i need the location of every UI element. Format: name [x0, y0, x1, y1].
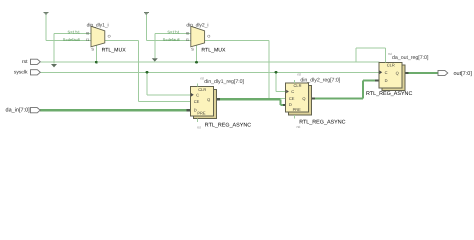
output port out[7:0] [438, 70, 448, 75]
svg-text:RTL_REG_ASYNC: RTL_REG_ASYNC [366, 91, 412, 97]
node T2 constant for din_dly2_i [144, 11, 149, 13]
svg-text:D: D [385, 78, 388, 83]
svg-text:D: D [289, 102, 292, 107]
wire sysclk branch to din_dly1_reg C [146, 72, 148, 95]
wire rst horizontal net [40, 61, 379, 63]
register din_dly2_reg[7:0] [286, 73, 341, 129]
wire T2 to mux2 I1 [145, 15, 147, 41]
wire mux2 I0 net with down arrow [155, 33, 191, 35]
bus din_dly1_reg Q to din_dly2_reg D [216, 98, 281, 100]
mux din_dly2_i [163, 22, 226, 53]
svg-text:Q: Q [207, 97, 210, 102]
svg-text:CLR: CLR [198, 87, 206, 92]
svg-text:rst: rst [388, 52, 392, 56]
svg-text:O: O [108, 34, 111, 38]
input port da_in[7:0] [30, 108, 40, 113]
svg-text:D: D [194, 107, 197, 112]
input port sysclk [31, 70, 41, 75]
wire sysclk branch to din_dly2_reg C [275, 72, 277, 91]
svg-text:din_dly1_i: din_dly1_i [87, 22, 109, 28]
svg-text:I0: I0 [86, 31, 89, 35]
svg-text:RTL_REG_ASYNC: RTL_REG_ASYNC [205, 122, 251, 128]
svg-text:out[7:0]: out[7:0] [454, 71, 473, 77]
register din_dly1_reg[7:0] [191, 76, 245, 129]
svg-text:din_dly2_reg[7:0]: din_dly2_reg[7:0] [300, 78, 340, 84]
wire sysclk horizontal net [40, 71, 379, 73]
wire rst jog up to da_out_reg CLR [355, 48, 357, 62]
wire T1 to mux1 I1 [45, 15, 47, 41]
wire mux2 O to din_dly2_reg CE [205, 40, 269, 42]
svg-text:CE: CE [289, 96, 295, 101]
svg-text:S=default: S=default [163, 37, 181, 42]
svg-text:PRE: PRE [293, 107, 302, 112]
svg-text:CLR: CLR [293, 83, 301, 88]
svg-text:da_out_reg[7:0]: da_out_reg[7:0] [392, 55, 429, 61]
svg-text:sysclk: sysclk [14, 70, 28, 76]
svg-text:da_in[7:0]: da_in[7:0] [6, 108, 31, 114]
svg-text:rst: rst [297, 73, 301, 77]
svg-text:CE: CE [194, 99, 200, 104]
svg-text:RTL_MUX: RTL_MUX [102, 48, 127, 54]
svg-text:O: O [207, 34, 210, 38]
svg-text:Q: Q [396, 71, 399, 76]
svg-text:rst: rst [197, 126, 201, 130]
svg-text:rst: rst [297, 125, 301, 129]
dark pin stubs on buses [186, 109, 190, 111]
svg-text:S: S [91, 48, 94, 52]
svg-text:RTL_MUX: RTL_MUX [201, 48, 226, 54]
svg-text:PRE: PRE [197, 111, 206, 116]
svg-text:din_dly1_reg[7:0]: din_dly1_reg[7:0] [204, 79, 244, 85]
wire mux1 S stub to rst [95, 45, 97, 62]
svg-text:CLR: CLR [387, 63, 395, 68]
mux din_dly1_i [63, 22, 126, 53]
svg-text:C: C [385, 70, 388, 75]
svg-text:S: S [191, 48, 194, 52]
svg-text:I0: I0 [186, 31, 189, 35]
wire mux2 S stub to rst [196, 45, 198, 62]
svg-text:Q: Q [302, 96, 305, 101]
wire mux1 I0 net with down arrow [54, 33, 91, 35]
svg-text:C: C [196, 92, 199, 97]
register da_out_reg[7:0] [379, 52, 429, 91]
svg-text:din_dly2_i: din_dly2_i [186, 22, 208, 28]
svg-text:S=default: S=default [63, 37, 81, 42]
bus da_in to din_dly1_reg D [40, 109, 190, 111]
wire mux1 O to din_dly1_reg CE [105, 39, 139, 41]
svg-text:C: C [291, 89, 294, 94]
svg-text:S=1'b1: S=1'b1 [68, 30, 81, 35]
svg-text:rst: rst [200, 76, 204, 80]
bus da_out_reg Q to out port [404, 72, 438, 74]
bus din_dly2_reg Q to da_out_reg D [311, 97, 363, 99]
node T1 constant for din_dly1_i [44, 11, 49, 13]
input port rst [31, 59, 41, 64]
svg-text:I1: I1 [86, 38, 89, 42]
svg-text:I1: I1 [186, 38, 189, 42]
svg-text:RTL_REG_ASYNC: RTL_REG_ASYNC [299, 119, 345, 125]
svg-text:S=1'b1: S=1'b1 [167, 30, 180, 35]
svg-text:rst: rst [22, 59, 28, 65]
